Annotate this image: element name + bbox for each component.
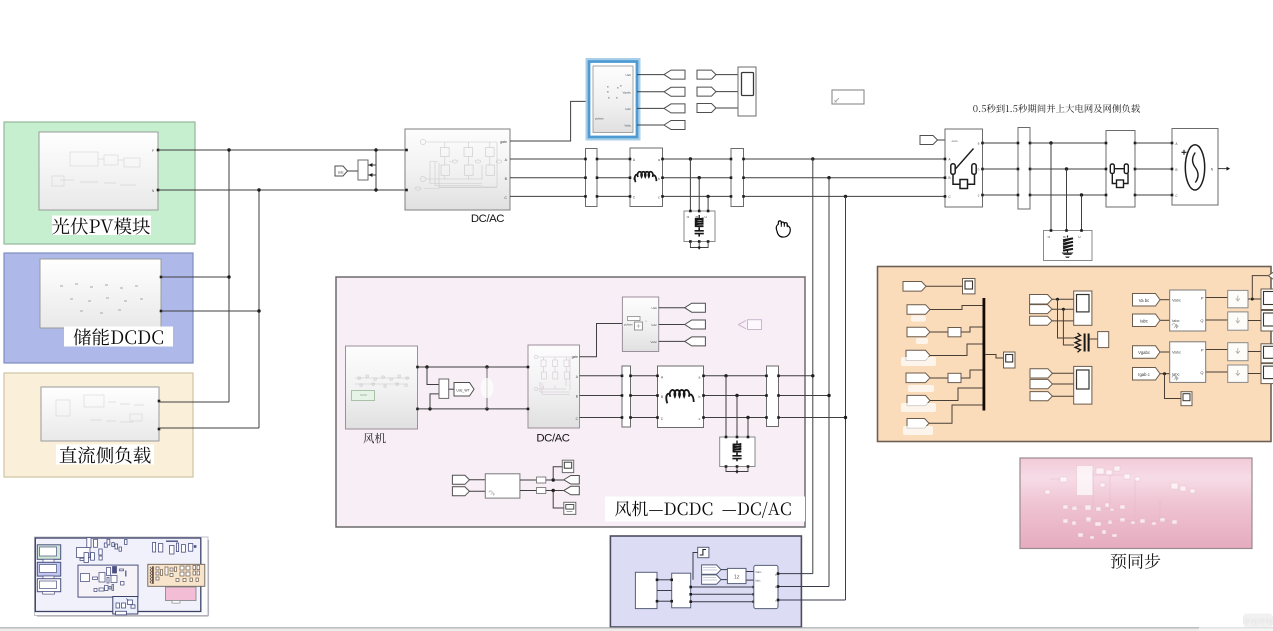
wires m2 to meter abc bbox=[691, 586, 754, 588]
wind turbine subsystem 风机 bbox=[346, 346, 418, 429]
svg-text:B: B bbox=[1175, 168, 1177, 172]
svg-text:DC/AC: DC/AC bbox=[471, 213, 504, 225]
from tag g1 bbox=[1030, 295, 1052, 305]
inductor coil glyph 2 bbox=[666, 390, 693, 403]
white smear blob bbox=[481, 378, 494, 398]
wire DC rail plus (PV to DC/AC) bbox=[158, 149, 405, 151]
from tag breaker com bbox=[920, 136, 938, 145]
wire vm vertical tap bbox=[375, 150, 377, 190]
breaker switch glyph bbox=[951, 149, 976, 189]
source ellipse and sine bbox=[1185, 145, 1204, 190]
minimap left column blocks bbox=[37, 545, 60, 560]
pulse subsystem output wires bbox=[659, 307, 685, 309]
from tag pll a bbox=[702, 565, 721, 574]
label strip 风机—DCDC —DC/AC bbox=[605, 497, 805, 522]
svg-text:gate: gate bbox=[572, 355, 579, 359]
svg-text:Iabc: Iabc bbox=[1172, 318, 1180, 323]
three-phase parallel RLC branch block bbox=[1106, 131, 1135, 208]
DC load output port 1 bbox=[158, 400, 161, 403]
wire pink rail B bbox=[580, 395, 830, 397]
svg-text:a: a bbox=[978, 142, 980, 146]
display P1 bbox=[1261, 289, 1273, 310]
wire to vm2 inputs bbox=[427, 367, 439, 385]
wire o5b to bus bbox=[961, 370, 983, 378]
svg-text:Igab c: Igab c bbox=[1138, 372, 1149, 377]
wire up to corner tag bbox=[1252, 276, 1268, 299]
wire drop to grid load C bbox=[1081, 195, 1083, 231]
voltage measurement block 2 bbox=[439, 379, 449, 398]
wire o7 to bus bbox=[929, 405, 983, 423]
label 光伏PV模块 bbox=[52, 216, 151, 236]
RLC load neutral stubs bbox=[689, 240, 692, 243]
wire vm minus input bbox=[368, 174, 376, 176]
wire gain4 to display bbox=[1248, 373, 1261, 375]
wire drop to grid load B bbox=[1066, 169, 1068, 231]
wire gain2 out bbox=[546, 490, 564, 492]
wires to PQ block 1 bbox=[1160, 299, 1170, 301]
annotation 0.5s-1.5s grid connect text bbox=[973, 104, 1140, 113]
svg-text:b: b bbox=[978, 168, 980, 172]
wire cream p1 branch bbox=[159, 401, 229, 403]
area DC-side load (cream) bbox=[4, 373, 193, 477]
PQ measurement block 2 bbox=[1170, 342, 1206, 383]
wire drop to grid load A bbox=[1050, 143, 1052, 231]
wire DC rail minus (PV to DC/AC) bbox=[158, 189, 405, 191]
from tag Vgabc bbox=[1133, 346, 1161, 359]
wire vm plus input bbox=[368, 164, 376, 166]
label smears bbox=[901, 316, 936, 436]
wire up to scope2 bbox=[553, 467, 562, 480]
from tag scope1 c bbox=[697, 104, 716, 113]
wire pink rail C bbox=[580, 417, 846, 419]
area grid measurement (lavender) bbox=[610, 536, 801, 627]
grounded coil glyph bbox=[1067, 236, 1069, 238]
from tag Igabc bbox=[1133, 368, 1161, 381]
wire o6 to bus bbox=[930, 388, 983, 401]
goto tag wt Vabc bbox=[685, 337, 706, 346]
power computation block bbox=[485, 474, 520, 498]
inverter block DC/AC 2 bbox=[528, 345, 580, 428]
wires g tags to scope5 bbox=[1052, 298, 1074, 300]
svg-text:Vabc: Vabc bbox=[755, 570, 762, 574]
subsystem PV inner block bbox=[39, 132, 158, 210]
wire drop B to RLC load bbox=[698, 178, 700, 211]
svg-text:Q: Q bbox=[1200, 370, 1203, 375]
svg-text:Udc: Udc bbox=[338, 170, 344, 174]
from tag o2 bbox=[907, 305, 930, 315]
svg-text:P: P bbox=[152, 149, 154, 153]
wires from tags to scope bbox=[716, 74, 738, 76]
source output stub bbox=[1218, 168, 1227, 170]
display Q2 bbox=[1261, 364, 1273, 384]
scope2 bbox=[562, 460, 573, 472]
wire o1 to scope3 bbox=[926, 285, 963, 287]
from tag h1 bbox=[1030, 369, 1052, 378]
DC/AC internal bridge graphic bbox=[415, 139, 502, 190]
svg-text:Iabc: Iabc bbox=[1140, 318, 1148, 323]
wire vertical feeder A down bbox=[812, 159, 814, 574]
rate gain block 1 bbox=[1228, 290, 1248, 307]
from tag h3 bbox=[1030, 392, 1052, 401]
svg-text:Uab: Uab bbox=[625, 73, 631, 77]
from tag o7 bbox=[907, 419, 929, 429]
wire P2 to gain bbox=[1206, 349, 1228, 351]
DC load output port 2 bbox=[158, 428, 161, 431]
svg-text:Vabc: Vabc bbox=[1172, 298, 1181, 303]
goto tag P bbox=[564, 476, 580, 485]
svg-text:a: a bbox=[699, 376, 701, 380]
VI measurement block 5 bbox=[767, 366, 779, 427]
wire P1 to gain bbox=[1206, 297, 1228, 299]
minimap overview panel bbox=[35, 537, 209, 616]
svg-text:c: c bbox=[699, 417, 701, 421]
wires tags to power block bbox=[469, 479, 485, 481]
minimap wind region bbox=[78, 565, 138, 597]
svg-text:Iabc: Iabc bbox=[651, 323, 657, 327]
svg-text:Vabc: Vabc bbox=[624, 123, 631, 127]
svg-text:Udc_WT: Udc_WT bbox=[456, 389, 469, 393]
selected subsystem blue highlight bbox=[587, 59, 640, 140]
svg-text:DC/AC: DC/AC bbox=[536, 433, 569, 445]
small block right of transformer bbox=[1098, 332, 1109, 348]
area wind DCDC DCAC (pink) bbox=[336, 277, 805, 527]
pink RLC load glyph bbox=[736, 441, 738, 444]
wire o5 to gain bbox=[930, 377, 948, 379]
wire step to m2 bbox=[693, 553, 698, 580]
three-phase series inductor block bbox=[630, 148, 663, 207]
svg-text:P: P bbox=[1201, 296, 1204, 301]
svg-text:gate: gate bbox=[500, 140, 507, 144]
from tag o1 bbox=[903, 282, 926, 292]
wires m1 to m2 bbox=[657, 579, 672, 581]
svg-text:1z: 1z bbox=[734, 575, 740, 581]
hand cursor bbox=[776, 221, 790, 237]
wire gain2 to display bbox=[1248, 320, 1261, 322]
svg-text:Iabc: Iabc bbox=[755, 579, 761, 583]
wire vertical bus plus taps bbox=[228, 150, 230, 402]
svg-text:pulses: pulses bbox=[595, 117, 604, 121]
goto tag Udc bbox=[335, 166, 348, 176]
from tag g3 bbox=[1030, 316, 1052, 325]
wire drops to pink RLC load bbox=[725, 376, 727, 437]
wires tags to 1z bbox=[721, 569, 727, 571]
goto tag corner bbox=[1268, 271, 1273, 281]
wire vertical bus minus taps bbox=[258, 190, 260, 428]
svg-text:Q: Q bbox=[1200, 318, 1203, 323]
goto tag Vabc bbox=[664, 121, 685, 130]
subsystem DCDC inner block bbox=[40, 259, 161, 328]
svg-text:B: B bbox=[948, 176, 950, 180]
from tag o6 bbox=[907, 395, 930, 405]
wire drop C to RLC load bbox=[707, 196, 709, 211]
wire blue p1 branch bbox=[161, 276, 229, 278]
wire phase B rail bbox=[510, 177, 945, 179]
label 预同步 bbox=[1111, 553, 1161, 569]
svg-text:Vgabc: Vgabc bbox=[622, 90, 631, 94]
wire phase A rail bbox=[510, 158, 945, 160]
area PV module (green) bbox=[4, 122, 195, 244]
powergui block bbox=[832, 90, 864, 104]
VI measurement block 1 bbox=[586, 149, 598, 207]
label 风机 bbox=[363, 433, 385, 444]
branch2 glyph bbox=[1110, 164, 1128, 188]
wires to PQ block 2 bbox=[1160, 351, 1170, 353]
scope6 bbox=[1074, 366, 1092, 404]
voltage measurement block (mux) bbox=[358, 160, 368, 180]
PV output port 1 bbox=[157, 149, 160, 152]
wire phase C rail bbox=[510, 195, 945, 197]
wires h tags to scope6 bbox=[1052, 372, 1073, 374]
from tag b bbox=[452, 487, 469, 496]
discrete block 1/z bbox=[727, 568, 746, 583]
junction dots plus bus bbox=[227, 148, 230, 151]
svg-text:Vabc: Vabc bbox=[1172, 350, 1181, 355]
block m2 bbox=[672, 573, 691, 608]
gain small 1 bbox=[537, 477, 546, 483]
minimap top middle cluster bbox=[77, 538, 128, 563]
wires breaker to measurement3 bbox=[983, 142, 1019, 144]
grayed from tag (commented) bbox=[738, 320, 746, 328]
from tag Iabc bbox=[1133, 314, 1161, 327]
DCDC output port 2 bbox=[160, 310, 163, 313]
wire wind p1 bbox=[418, 366, 529, 368]
area storage DCDC (blue) bbox=[4, 253, 193, 363]
RLC load inductor+capacitor glyph bbox=[698, 215, 700, 218]
VI measurement block 2 bbox=[731, 149, 744, 207]
junction dots to RLC load bbox=[689, 157, 692, 160]
three-phase RLC load (filter capacitor) bbox=[684, 211, 715, 242]
three-phase source block bbox=[1172, 129, 1218, 206]
svg-text:c: c bbox=[658, 196, 660, 200]
gain o3 bbox=[948, 328, 961, 337]
scope4 bbox=[1004, 352, 1016, 368]
from tag Vabc bbox=[1133, 294, 1161, 307]
svg-text:a: a bbox=[658, 158, 660, 162]
VI measurement block 4 bbox=[622, 366, 631, 427]
label 直流侧负载 bbox=[56, 445, 154, 465]
pulse generator subsystem bbox=[622, 297, 658, 352]
display block bbox=[564, 502, 576, 514]
junction dots grid load bbox=[1049, 141, 1052, 144]
wire drop A to RLC load bbox=[689, 159, 691, 211]
scope5 bbox=[1074, 291, 1092, 325]
wire vertical feeder B down bbox=[828, 178, 830, 587]
source block m1 bbox=[635, 572, 657, 608]
svg-text:Iabc: Iabc bbox=[625, 107, 631, 111]
wire Q1 to gain bbox=[1206, 319, 1228, 321]
wire gain1 out bbox=[546, 479, 564, 481]
rate gain block 2 bbox=[1228, 312, 1248, 330]
wires power block to gains bbox=[520, 479, 537, 481]
junction dots minus bus bbox=[257, 188, 260, 191]
from tag h2 bbox=[1030, 379, 1052, 388]
scope7 bbox=[1181, 392, 1192, 406]
rate gain block 4 bbox=[1228, 365, 1248, 382]
wire o3b to bus bbox=[961, 327, 983, 332]
wire wind p2 bbox=[418, 408, 529, 410]
wire Q2 to gain bbox=[1206, 371, 1228, 373]
wire gain1 to display bbox=[1248, 298, 1261, 300]
wire vm2 to goto tag bbox=[449, 388, 454, 390]
scope3 bbox=[963, 279, 976, 294]
wire Igabc down to scope7 bbox=[1165, 374, 1182, 399]
three-phase inductor block 2 bbox=[658, 366, 704, 428]
DCDC output port 1 bbox=[160, 276, 163, 279]
from tag scope1 a bbox=[697, 70, 716, 79]
wire bus to scope4 bbox=[985, 355, 1003, 359]
wire transformer to block bbox=[1090, 338, 1098, 340]
goto tag Udc_WT bbox=[454, 383, 474, 397]
grid meter block bbox=[754, 565, 778, 608]
VI measurement block 3 bbox=[1018, 128, 1030, 210]
svg-text:B: B bbox=[1063, 236, 1067, 238]
subsystem DC load inner block bbox=[41, 387, 159, 441]
from tag g2 bbox=[1030, 305, 1052, 314]
display Q1 bbox=[1261, 311, 1273, 332]
wires branch2 to source bbox=[1135, 142, 1172, 144]
wires down to transformer bbox=[1058, 299, 1075, 338]
goto tag wt Uab bbox=[685, 303, 706, 312]
svg-text:b: b bbox=[658, 177, 660, 181]
transformer/saturation icon bbox=[1075, 333, 1081, 352]
wire pink rail A bbox=[580, 375, 814, 377]
gain small 2 bbox=[537, 488, 546, 494]
wire down to display bbox=[553, 491, 564, 509]
from tag o5 bbox=[906, 373, 930, 383]
three-phase breaker block bbox=[945, 129, 983, 207]
rate gain block 3 bbox=[1228, 343, 1248, 361]
svg-text:B: B bbox=[695, 216, 699, 218]
junction dots to RLC load pink bbox=[724, 374, 727, 377]
from tag o4 bbox=[906, 350, 930, 360]
step block bbox=[698, 547, 709, 557]
from tag pll b bbox=[702, 575, 721, 584]
wire blue p2 branch bbox=[161, 310, 259, 312]
goto tag Uab bbox=[664, 70, 685, 79]
wires meas3 to RLC branch2 bbox=[1030, 142, 1106, 144]
svg-text:Va bc: Va bc bbox=[1139, 298, 1149, 303]
gain o5 bbox=[948, 373, 961, 382]
goto tag wt Iabc bbox=[685, 320, 706, 329]
wire gate to pulses bbox=[510, 101, 589, 141]
power calc cluster: from tag a bbox=[452, 475, 469, 484]
PV output port 2 bbox=[157, 189, 160, 192]
svg-text:C: C bbox=[504, 196, 507, 200]
svg-text:Uab: Uab bbox=[651, 306, 657, 310]
svg-text:Vabc: Vabc bbox=[650, 340, 657, 344]
from tag scope1 b bbox=[697, 87, 716, 96]
svg-text:Vgabc: Vgabc bbox=[1138, 350, 1150, 355]
wire Udc tag to voltage measurement bbox=[348, 170, 359, 172]
vertical measurement tap pink bbox=[486, 367, 488, 409]
scope block top bbox=[738, 67, 756, 116]
grid-side RLC load with ground bbox=[1044, 231, 1093, 261]
junction dots down-feeders bbox=[811, 157, 814, 160]
signal bus bar bbox=[983, 298, 986, 411]
wire o4 to bus bbox=[930, 344, 983, 356]
watermark bilibili bbox=[1243, 614, 1273, 628]
wire o3 to gain bbox=[930, 331, 948, 333]
minimap presync block bbox=[166, 587, 197, 601]
minimap orange region bbox=[148, 564, 205, 586]
presync subsystem block bbox=[1020, 458, 1252, 549]
svg-text:b: b bbox=[699, 395, 701, 399]
goto tag Vgabc bbox=[664, 87, 685, 96]
minimap bottom region bbox=[113, 597, 138, 615]
display P2 bbox=[1261, 344, 1273, 363]
presync faint contents bbox=[1045, 466, 1195, 540]
meter outputs to feeders bbox=[778, 573, 813, 575]
PQ measurement block 1 bbox=[1170, 290, 1206, 331]
wire vertical feeder C down bbox=[845, 196, 847, 600]
goto tag Iabc bbox=[664, 104, 685, 113]
from tag o3 bbox=[907, 327, 930, 337]
area measurements (orange) bbox=[878, 267, 1272, 442]
svg-text:com: com bbox=[952, 139, 958, 143]
wires subsystem to goto tags bbox=[637, 74, 664, 76]
minimap top right cluster bbox=[153, 541, 196, 554]
wire com tag to breaker bbox=[938, 139, 946, 141]
wire o2 to bus bbox=[930, 306, 983, 310]
wire gate2 to pulse subsystem bbox=[580, 324, 623, 357]
inductor coil glyph bbox=[635, 172, 657, 182]
inverter block DC/AC bbox=[405, 129, 510, 210]
goto tag Q bbox=[564, 486, 580, 495]
wires 1z to meter bbox=[746, 571, 754, 573]
svg-text:pulses: pulses bbox=[624, 323, 633, 327]
label 储能DCDC bbox=[64, 327, 173, 347]
wire gain3 to display bbox=[1248, 351, 1261, 353]
three-phase RLC load pink bbox=[720, 437, 755, 467]
wire cream p2 branch bbox=[159, 427, 259, 429]
svg-text:P: P bbox=[1201, 348, 1204, 353]
window bottom strip bbox=[0, 628, 1199, 631]
